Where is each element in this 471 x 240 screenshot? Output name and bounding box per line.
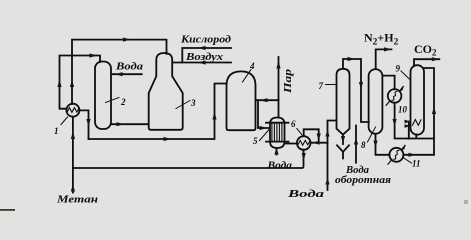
wire steam into vessel 4 — [256, 99, 279, 101]
label leader 11 — [403, 158, 412, 164]
wire circulating water line — [355, 126, 357, 163]
cooler 11 ticks — [388, 145, 405, 164]
wire vessel 4 to exchanger 5 — [258, 100, 270, 128]
wire air line — [173, 62, 231, 64]
label leader 5 — [260, 129, 271, 141]
wire column 8 right to blower 10 — [383, 76, 395, 90]
arrow cooler6 down — [302, 153, 306, 161]
wire vessel 2 to vessel 3 — [112, 123, 149, 125]
label leader 8 — [368, 127, 376, 142]
exchanger 5 shell — [270, 118, 285, 149]
arrow water riser up high — [325, 130, 329, 137]
scan artifact bottom right speck — [464, 200, 468, 204]
exchanger 5 tubes hatch — [272, 123, 282, 141]
wire exchanger 1 right outlet down — [79, 110, 88, 139]
label leader 9 — [401, 71, 411, 81]
wire water into exchanger 5 bottom — [276, 148, 278, 154]
arrow N2H2 right — [384, 47, 392, 51]
scrubber 7 column — [337, 69, 350, 135]
vessel 3 reformer — [149, 53, 183, 130]
arrow vessel2 to 3 right — [117, 122, 125, 126]
label leader 4 — [243, 70, 252, 83]
arrow steam to vessel4 left — [260, 98, 268, 102]
arrow vessel4 riser up — [212, 112, 216, 120]
arrow water into 5 up — [274, 148, 278, 155]
wire junction horizontal into cooler 6 — [311, 142, 328, 144]
blower 10 S-vane — [392, 92, 397, 101]
svg-text:5: 5 — [253, 136, 258, 146]
column 8 — [369, 69, 383, 134]
arrow down to column 8 — [359, 82, 363, 90]
column 9 — [411, 65, 425, 135]
wire water riser to scrubber 7 — [328, 121, 337, 191]
arrow column8 bottom down — [373, 141, 377, 149]
svg-text:1: 1 — [54, 126, 59, 136]
arrow hx1 outlet down — [86, 119, 90, 127]
arrow bypass up — [57, 80, 61, 88]
svg-text:10: 10 — [398, 105, 408, 115]
svg-text:3: 3 — [190, 98, 196, 108]
cooler 11 S-vane — [394, 150, 399, 159]
arrow top line right — [123, 38, 131, 42]
wire blower 10 down to column 9 bottom — [395, 103, 434, 139]
arrow to vessel 2 right — [90, 53, 98, 57]
wire exchanger 5 to cooler 6 — [285, 143, 297, 145]
wire steam outlet up — [278, 57, 280, 117]
svg-text:8: 8 — [361, 140, 366, 150]
arrow scrubber7 top right — [348, 57, 356, 61]
cooler 11 circle — [389, 148, 403, 162]
arrow coil stub upper — [405, 120, 411, 124]
arrow coil stub lower — [405, 124, 411, 128]
blower 10 circle — [388, 89, 402, 103]
wire CO2 outlet — [414, 59, 439, 65]
label leader 7 dash — [326, 84, 336, 86]
wire long bottom return line from cooler 6 — [73, 150, 304, 168]
svg-text:7: 7 — [319, 81, 324, 91]
arrow methane up — [71, 184, 75, 192]
arrow riser to 9 up — [432, 107, 436, 115]
wire methane riser below exchanger 1 — [72, 117, 74, 193]
arrow gas into exchanger5 right — [260, 126, 268, 130]
arrow junction left into 6 — [313, 141, 320, 145]
wire cooler 6 top loop — [304, 129, 319, 142]
heat exchanger U1 circle 1 — [66, 104, 79, 117]
arrow blower10 down — [393, 119, 397, 127]
wire column 8 bottom to cooler 11 — [376, 134, 390, 155]
arrow mixed gas up — [71, 132, 75, 140]
wire scrubber 7 drain — [342, 135, 344, 145]
svg-text:Вода: Вода — [115, 62, 143, 73]
svg-text:оборотная: оборотная — [335, 175, 391, 186]
arrow cooler11 out right — [409, 153, 417, 157]
svg-text:Вода: Вода — [286, 189, 324, 200]
zigzag coil inside column 9 — [413, 120, 422, 126]
scan artifact bottom left — [0, 209, 15, 211]
label leader 3 — [176, 101, 190, 109]
wire bottom transfer line to vessel 4 — [89, 84, 227, 140]
arrow scrubber 7 drain down — [341, 136, 345, 144]
arrow loop down — [317, 134, 321, 141]
arrow air left — [198, 60, 206, 64]
vessel 4 — [227, 71, 256, 130]
wire N2+H2 outlet — [376, 49, 392, 69]
wire oxygen line — [182, 48, 231, 63]
wire bypass to vessel 2 top — [60, 56, 101, 109]
drain funnel under 7 — [337, 145, 349, 158]
cooler 6 circle — [297, 136, 311, 150]
arrow water vessel 2 left — [115, 72, 123, 76]
arrow circulating water up — [354, 138, 358, 145]
wire cooler 11 to column 9 top — [403, 68, 434, 155]
svg-text:Пар: Пар — [283, 69, 294, 94]
svg-text:4: 4 — [249, 61, 255, 71]
svg-text:6: 6 — [291, 119, 296, 129]
label leader 1 — [61, 117, 68, 125]
blower 10 ticks — [386, 87, 403, 106]
arrow steam up — [276, 61, 280, 69]
svg-text:9: 9 — [396, 64, 401, 74]
wire coil feed stubs — [409, 122, 410, 139]
arrow bottom line right — [164, 137, 172, 141]
svg-text:Воздух: Воздух — [185, 52, 223, 63]
svg-text:Метан: Метан — [56, 195, 99, 206]
wire top line from HX1 to vessel 3 dome — [72, 40, 167, 104]
zigzag inside exchanger 1 — [67, 108, 79, 113]
vessel 2 — [95, 62, 111, 130]
arrow oxygen left — [198, 46, 206, 50]
label leader 6 — [297, 129, 302, 135]
zigzag inside cooler 6 — [298, 140, 310, 145]
wire scrubber 7 top to column 8 — [343, 59, 369, 122]
arrow water riser up low — [325, 178, 329, 185]
svg-text:Вода: Вода — [266, 161, 292, 172]
wire water inlet vessel 2 — [112, 73, 142, 75]
exchanger 5 tube sheets — [266, 123, 289, 142]
svg-text:11: 11 — [412, 159, 421, 169]
arrow riser up — [70, 80, 74, 88]
svg-text:2: 2 — [120, 97, 126, 107]
arrow CO2 right — [432, 57, 440, 61]
svg-text:Кислород: Кислород — [180, 35, 231, 46]
label leader 2 — [106, 98, 120, 103]
